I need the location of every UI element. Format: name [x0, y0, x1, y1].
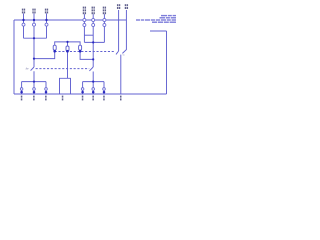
title text line 4	[152, 22, 157, 23]
pin T4 circle a	[83, 19, 86, 22]
junction dots	[20, 19, 105, 94]
wire pin B3 drop	[45, 82, 47, 88]
pin T5 circle a	[92, 19, 95, 22]
label box pin	[62, 96, 64, 98]
node B rail right	[92, 81, 94, 83]
border frame left	[13, 20, 15, 94]
wire coil K2 bottom lead	[67, 51, 69, 78]
mechanical link dashed 2	[36, 68, 90, 70]
wire bottom-right rail	[83, 81, 104, 83]
node B2 border dot	[33, 91, 36, 94]
wire bottom-left rail	[22, 81, 46, 83]
label pin B7	[103, 96, 105, 98]
pin B5 circle a	[81, 88, 84, 91]
label pin B6	[92, 96, 94, 98]
border frame right	[166, 31, 168, 94]
wire pin T3 drop	[46, 14, 48, 39]
wire SW1 lower	[33, 71, 35, 81]
node T2 border dot	[33, 19, 35, 21]
node A2	[33, 58, 35, 60]
wire crosser NO contact	[122, 10, 126, 53]
wire pin B2 drop	[33, 82, 35, 88]
wire pin B1 drop	[21, 82, 23, 88]
pin B7 circle a	[103, 88, 106, 91]
svg-text:fw: fw	[26, 67, 30, 71]
border frame bottom	[14, 93, 167, 95]
node C2	[92, 58, 94, 60]
contact SW2 blade	[89, 67, 93, 71]
wire pin B7 stub	[103, 90, 105, 94]
wire changeover pole	[120, 55, 122, 94]
wire pin B6 drop	[92, 82, 94, 88]
svg-text:tc: tc	[123, 52, 126, 56]
wire pin B5 drop	[82, 82, 84, 88]
wire net A horizontal	[24, 37, 47, 39]
title text line 2	[160, 17, 166, 18]
label pin NC	[117, 4, 118, 6]
node B5 border dot	[81, 91, 84, 94]
wire pin B3 stub	[45, 90, 47, 94]
pin labels top	[22, 4, 128, 14]
pin T5 circle b	[92, 24, 95, 27]
pin labels bottom	[21, 96, 122, 101]
node T1 border dot	[22, 19, 24, 21]
node B7 border dot	[103, 91, 106, 94]
border frame top-right	[150, 30, 167, 32]
wire pin T2 drop	[33, 14, 35, 68]
label pin T2	[32, 9, 33, 11]
label pin B2	[33, 96, 35, 98]
node K1 link	[53, 50, 56, 53]
pin T2 circle	[33, 23, 36, 26]
coil K1	[53, 45, 56, 50]
pin B3 circle a	[45, 88, 48, 91]
pin T6 circle a	[103, 19, 106, 22]
label pin B3	[45, 96, 47, 98]
wire net C upper link	[84, 34, 93, 36]
mechanical link dashed 1	[55, 51, 116, 53]
wire pin B6 stub	[92, 90, 94, 94]
border frame top	[14, 19, 126, 21]
label pin pole	[120, 96, 122, 98]
pin T3 circle	[45, 23, 48, 26]
wire crosser NC contact	[118, 10, 120, 51]
node B3 border dot	[45, 91, 48, 94]
node A1	[33, 37, 35, 39]
wire coil K1 bottom lead to net A	[34, 50, 55, 58]
node K2 link	[66, 50, 69, 53]
node rail	[66, 41, 68, 43]
pin B2 circle a	[33, 88, 36, 91]
wire pin B1 stub	[21, 90, 23, 94]
node B6 border dot	[92, 91, 95, 94]
coil K2	[66, 46, 69, 51]
label pin NO	[125, 4, 126, 6]
label pin B5	[82, 96, 84, 98]
title text line 1	[161, 15, 167, 16]
wire pin T5 drop	[92, 14, 94, 67]
label pin T3	[45, 9, 46, 11]
label pin T4	[83, 7, 84, 9]
label pin T1	[22, 9, 23, 11]
node T3 border dot	[45, 19, 47, 21]
wire pin B2 stub	[33, 90, 35, 94]
title text line 3	[136, 19, 140, 20]
wire pin T6 drop	[103, 14, 105, 42]
wire pin T4 drop	[83, 14, 85, 42]
wire pin B7 drop	[103, 82, 105, 88]
wire coil rail	[55, 42, 80, 45]
contact SW1 blade	[31, 67, 34, 71]
label pin T6	[103, 7, 104, 9]
label pin B1	[21, 96, 23, 98]
changeover blade	[116, 51, 119, 54]
node K3 link	[79, 50, 82, 53]
label pin T5	[92, 7, 93, 9]
wire pin B5 stub	[82, 90, 84, 94]
wire net C lower link	[84, 41, 104, 43]
pin T6 circle b	[103, 24, 106, 27]
pin T4 circle b	[83, 24, 86, 27]
wire pin T1 drop	[23, 14, 25, 39]
wire coil K2 top lead	[67, 42, 69, 46]
node B rail left	[33, 81, 35, 83]
box actuator	[60, 78, 71, 94]
pin circles	[20, 19, 106, 91]
wire coil K3 bottom lead to net C	[80, 50, 93, 59]
title block text	[136, 15, 176, 23]
pin T1 circle	[22, 23, 25, 26]
coil K3	[79, 45, 82, 50]
node B1 border dot	[20, 91, 23, 94]
wire SW2 lower	[92, 72, 94, 82]
pin B6 circle a	[92, 88, 95, 91]
pin B1 circle	[20, 88, 23, 91]
node C1	[92, 41, 94, 43]
